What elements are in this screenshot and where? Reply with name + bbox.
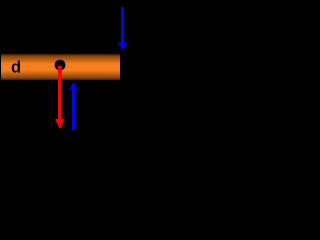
blue up arrow [70,82,78,129]
red down arrow [55,66,64,129]
dot (pivot) [55,60,66,71]
blue down arrow (top) [118,7,128,50]
bar (rod) [1,54,121,81]
svg-text:d: d [11,59,21,77]
